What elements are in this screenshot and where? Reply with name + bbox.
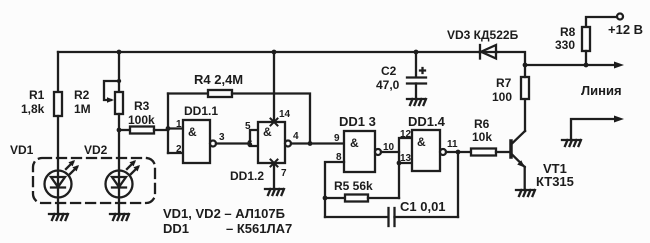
wire R8 bottom <box>585 51 587 65</box>
node dot R4/out4 <box>308 141 313 146</box>
ground under DD1.2 pin7 <box>265 189 284 195</box>
ground under VD1 <box>49 214 68 220</box>
wire R5 right lead <box>368 197 399 199</box>
svg-text:11: 11 <box>447 139 458 150</box>
arrowhead line return <box>614 116 624 123</box>
gate DD1.1 output bubble <box>210 141 216 147</box>
svg-text:R7: R7 <box>496 76 512 90</box>
resistor R7 <box>521 77 529 99</box>
svg-text:VD1: VD1 <box>10 143 34 157</box>
svg-text:7: 7 <box>281 168 287 179</box>
gate DD1.3 <box>344 131 375 172</box>
node dot rail C2 <box>414 50 419 55</box>
wire R3 right lead <box>154 129 168 131</box>
svg-text:DD1.4: DD1.4 <box>408 114 446 129</box>
node dot pin8/R5/C1 <box>323 196 328 201</box>
pin 14 x-mark <box>271 119 278 126</box>
resistor R1 <box>54 92 62 116</box>
wiper arrowhead R2 <box>107 97 114 103</box>
wire R2 bottom to VD2 <box>118 114 120 170</box>
svg-text:100k: 100k <box>128 113 155 127</box>
wire pin2 stub <box>168 152 183 154</box>
svg-text:Линия: Линия <box>581 83 622 98</box>
svg-text:&: & <box>263 125 272 139</box>
svg-text:3: 3 <box>219 132 225 143</box>
resistor R5 leads <box>325 197 345 199</box>
node dot rail pin14 <box>272 50 277 55</box>
wire pin 14 power <box>273 52 275 122</box>
svg-text:1M: 1M <box>74 102 91 116</box>
svg-text:&: & <box>350 136 359 150</box>
resistor R4 leads <box>168 92 208 94</box>
transistor VT1 <box>511 131 525 168</box>
node dot R3/DD1.1 inputs <box>166 126 171 131</box>
resistor R6 <box>470 151 472 153</box>
wire DD1.2 out to DD1.3 pin9 <box>291 142 344 144</box>
svg-text:КТ315: КТ315 <box>536 174 574 189</box>
gate DD1.2 output bubble <box>285 141 291 147</box>
svg-text:R4 2,4M: R4 2,4M <box>194 72 243 87</box>
wire DD1.1 out to DD1.2 in <box>216 142 250 144</box>
svg-text:DD1.2: DD1.2 <box>230 169 264 183</box>
wire C1 bottom left <box>325 216 388 218</box>
svg-text:R6: R6 <box>474 117 490 131</box>
svg-text:1,8k: 1,8k <box>21 102 45 116</box>
wire top supply rail <box>58 51 479 53</box>
svg-text:12: 12 <box>400 129 412 140</box>
svg-text:10: 10 <box>383 142 395 153</box>
wire R1 branch from rail <box>57 52 59 92</box>
wire diode to line corner <box>497 52 525 65</box>
svg-text:10k: 10k <box>472 130 492 144</box>
wire R5 right riser <box>398 163 400 198</box>
logic gate DD1.1 <box>183 120 210 163</box>
svg-text:C2: C2 <box>381 64 397 78</box>
node dot R2 wiper <box>117 79 121 83</box>
ground under VD2 <box>110 214 129 220</box>
svg-text:DD1: DD1 <box>163 221 189 236</box>
node dot line/R8 <box>584 63 589 68</box>
svg-text:– К561ЛА7: – К561ЛА7 <box>226 221 292 236</box>
LED VD1 <box>45 160 80 214</box>
svg-text:2: 2 <box>176 144 182 155</box>
wire pin1 stub <box>168 127 183 129</box>
node dot R2/R3/VD2 <box>117 128 122 133</box>
gate DD1.2 <box>258 122 285 163</box>
capacitor C2 (electrolytic) <box>407 52 426 99</box>
wire DD1.4 out to R6 <box>446 151 471 153</box>
svg-text:DD1.1: DD1.1 <box>184 104 218 118</box>
dashed sensor box <box>33 158 155 203</box>
resistor R8 leads top <box>586 17 616 27</box>
svg-text:13: 13 <box>400 153 412 164</box>
wire collector up to R7 <box>524 99 526 131</box>
node dot line/R7 <box>523 63 528 68</box>
svg-text:47,0: 47,0 <box>376 78 400 92</box>
wire C1 bottom right <box>395 216 459 218</box>
capacitor C1 <box>389 208 395 226</box>
resistor R5 <box>345 195 368 202</box>
svg-text:4: 4 <box>293 131 299 142</box>
svg-text:R3: R3 <box>134 99 150 113</box>
wire line return (bottom arrow) <box>571 119 617 140</box>
svg-text:&: & <box>188 125 197 139</box>
svg-text:5: 5 <box>245 121 251 132</box>
wire R4 right lead and drop <box>232 94 310 144</box>
node dot pin13/R5 <box>397 161 402 166</box>
wire pin 7 ground lead <box>273 163 275 189</box>
svg-text:14: 14 <box>279 109 291 120</box>
wire R2 wiper <box>104 81 119 100</box>
svg-text:+12 В: +12 В <box>608 22 643 37</box>
svg-text:VD3 КД522Б: VD3 КД522Б <box>447 28 519 42</box>
arrowhead line top <box>614 62 624 69</box>
node dot rail R2 <box>117 50 122 55</box>
resistor R3 <box>130 127 154 134</box>
resistor R2 (trimmer) <box>115 92 123 114</box>
resistor R8 <box>582 27 590 51</box>
wire DD1.3 out to DD1.4 connector <box>381 151 399 153</box>
ground under C2 <box>407 99 426 105</box>
pin 7 x-mark <box>271 160 278 167</box>
wire DD1.3 pin8 loop <box>325 162 344 217</box>
wire R7 top to junction <box>524 65 526 77</box>
wire line output (Linia top) <box>525 64 617 66</box>
svg-text:VD1, VD2 – АЛ107Б: VD1, VD2 – АЛ107Б <box>163 206 285 221</box>
svg-text:&: & <box>417 135 426 149</box>
wire DD1.4 input connector <box>399 138 412 163</box>
wire R6 to base <box>496 151 509 153</box>
wire R3 left lead <box>119 129 130 131</box>
svg-text:VD2: VD2 <box>84 143 108 157</box>
resistor R4 <box>208 90 232 97</box>
svg-text:330: 330 <box>555 38 575 52</box>
LED VD2 <box>106 160 141 214</box>
wire R1 to VD1 <box>57 116 59 171</box>
svg-text:R5 56k: R5 56k <box>334 179 373 193</box>
svg-text:R8: R8 <box>560 25 576 39</box>
svg-text:100: 100 <box>492 90 512 104</box>
svg-text:R1: R1 <box>29 88 45 102</box>
wire DD1.2 input bracket <box>250 130 258 146</box>
terminal +12V <box>617 14 623 20</box>
svg-text:9: 9 <box>334 133 340 144</box>
svg-text:6: 6 <box>247 139 253 150</box>
svg-text:8: 8 <box>336 152 342 163</box>
wire emitter down <box>524 167 526 190</box>
wire R2 branch from rail <box>118 52 120 92</box>
gate DD1.4 output bubble <box>440 149 446 155</box>
wire DD1.1 input connector <box>167 94 169 154</box>
svg-text:DD1 3: DD1 3 <box>339 114 376 129</box>
gate DD1.4 <box>412 130 440 171</box>
node dot out11/C1 <box>456 150 461 155</box>
svg-text:1: 1 <box>176 119 182 130</box>
wire C1 right riser <box>457 152 459 217</box>
diode VD3 <box>479 45 497 59</box>
gate DD1.3 output bubble <box>375 149 381 155</box>
ground under VT1 emitter <box>516 190 535 196</box>
ground right return <box>562 140 581 146</box>
svg-text:R2: R2 <box>74 88 90 102</box>
svg-text:C1 0,01: C1 0,01 <box>400 199 446 214</box>
